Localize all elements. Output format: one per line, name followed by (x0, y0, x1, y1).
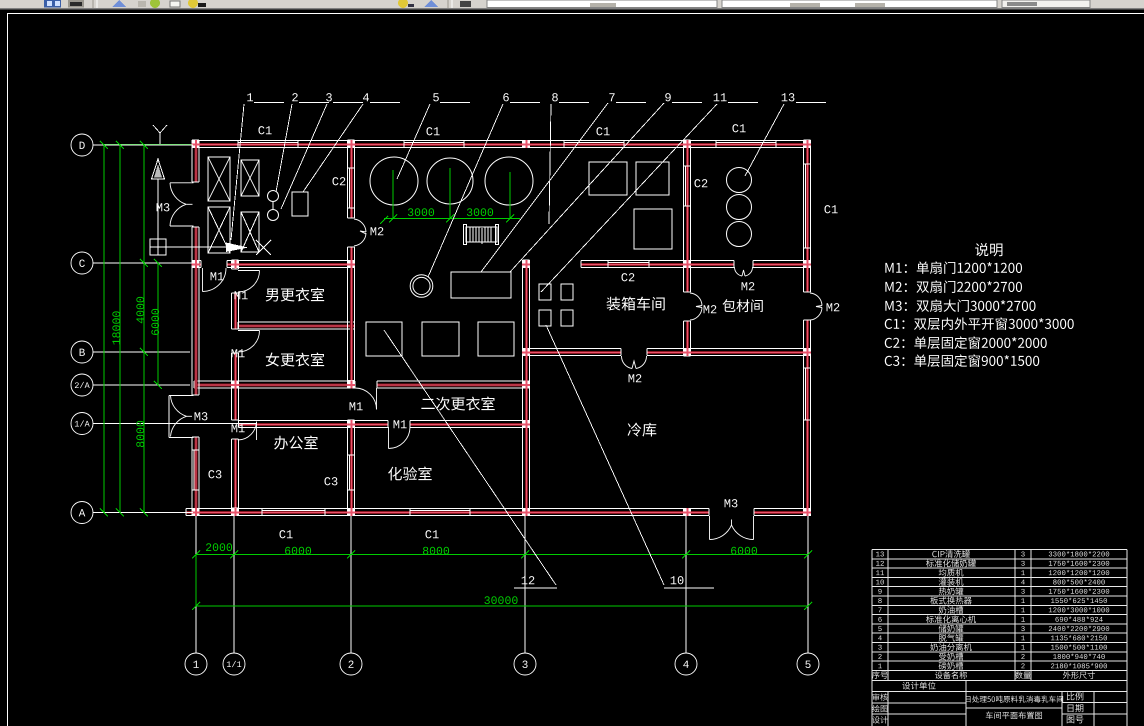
corridor wall (更衣室/办公室 west) (232, 260, 239, 508)
wall junction blocks (192, 140, 812, 516)
equipment: X-tank boxes (磅奶槽/受奶槽) (208, 157, 259, 253)
exterior wall A (bottom) (186, 509, 811, 516)
inner dim 3000/3000 (green) (380, 168, 520, 224)
door M3 bottom (double, swings south) (710, 516, 754, 540)
wall C left (男更衣室 top), door gap (194, 261, 355, 268)
section arrow triangle + pole (152, 159, 165, 179)
door M3 vestibule (double, swings west) (171, 396, 193, 437)
equipment table (bottom right) (872, 550, 1127, 726)
wall 1/A, M1 door gap (239, 421, 530, 428)
door M2 wall C (swings south into 包材间) (734, 267, 752, 276)
green extension line along grid D (104, 144, 192, 146)
door M2 grid2 wall (double, swings east) (354, 219, 366, 246)
grid-2 wall upper, C2 window + M2 door gap (348, 140, 355, 381)
equipment: squares row (均质机 etc.) (589, 162, 672, 249)
equipment: 标准化离心机 double circle (410, 275, 433, 298)
square-cross symbol (150, 239, 166, 255)
toolbar strip (cut off at top) (0, 0, 1144, 10)
north/section symbol: Y mark (153, 125, 167, 144)
grid bubble lines (bottom) (196, 516, 808, 653)
equipment: CIP tanks 3 circles (727, 168, 752, 247)
bottom dimension row 2 (green) (192, 602, 812, 610)
equipment: 奶油槽 long rect (451, 272, 511, 298)
X mark (256, 240, 271, 255)
door M2 wall B (swings south into 冷库) (621, 356, 646, 369)
grid bubble lines (left) (93, 145, 257, 513)
door M1 at C wall (corridor top) (203, 268, 227, 292)
wall B (冷库 top), M2 door gap (523, 349, 811, 356)
horizontal line with solid arrow (166, 246, 232, 248)
wall C right (包材间 top), M2 door gap (690, 261, 811, 268)
drawing frame border (7, 13, 1144, 15)
wall between 男/女更衣室 (238, 322, 355, 329)
leader numbers with underlines (top) (254, 103, 826, 589)
door M1 办公室 (238, 422, 257, 441)
door M1 男更衣室 (238, 271, 260, 293)
wall C middle (装箱车间 top) with C2 window (581, 261, 690, 268)
grid-3 wall (523, 260, 530, 516)
green extension line along grid A (104, 512, 150, 514)
wall 2/A, M1 door gap (194, 381, 529, 388)
vestibule niche box west of M3 door (169, 396, 194, 438)
grid bubbles bottom (185, 653, 819, 675)
equipment: valve symbol (two small circles) (268, 191, 279, 221)
door M2 grid5 wall (double, swings east) (810, 293, 822, 320)
equipment: 灌装机 4 small boxes (539, 284, 573, 326)
leader diagonal lines (231, 103, 784, 585)
equipment: plate heat exchanger (hatched) (464, 225, 499, 245)
equipment: 脱气罐 small rect (292, 192, 308, 216)
equipment: 标准化储奶罐 3 squares (366, 322, 514, 356)
door M1 二次更衣室 (355, 388, 377, 410)
grid-4 wall, C2 window + M2 door gap (684, 140, 691, 356)
grid-5 wall (east), C1 windows + M2 door gap (804, 140, 811, 516)
left dimension lines (green) (100, 141, 162, 517)
exterior wall D (top) (196, 141, 811, 148)
grid bubbles left (71, 134, 93, 524)
grid-2 wall lower, C3 window (348, 420, 355, 516)
door M1 女更衣室 (238, 331, 260, 353)
equipment: 3 storage tanks (circles) (370, 157, 533, 205)
door M1 化验室 (389, 427, 411, 449)
exterior wall left, M3 gaps + C3 window (192, 140, 199, 516)
door M2 grid4 wall (double, swings east) (690, 293, 702, 320)
bottom dimension row 1 (green) (192, 551, 812, 607)
door M3 top-left (double, swings west) (170, 183, 194, 226)
